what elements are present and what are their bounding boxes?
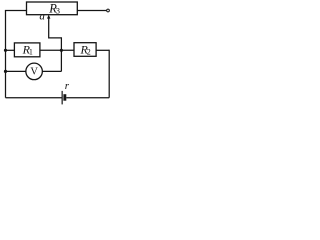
wire bottom left <box>6 97 62 99</box>
wire wiper elbow <box>49 17 62 50</box>
wire bottom right <box>66 97 109 99</box>
junction node left-voltmeter <box>4 70 7 73</box>
wire right rail <box>108 50 110 98</box>
wire voltmeter left <box>6 70 26 72</box>
wire middle right <box>96 49 109 51</box>
battery short plate <box>63 94 66 101</box>
wire left rail <box>5 11 7 98</box>
svg-text:2: 2 <box>87 48 91 57</box>
wire voltmeter right <box>42 70 61 72</box>
resistor R1 <box>14 43 40 57</box>
terminal circle <box>107 9 110 12</box>
junction node wiper-middle <box>60 49 63 52</box>
voltmeter V <box>26 63 43 80</box>
resistor R3 <box>27 2 78 15</box>
wire middle left <box>6 49 15 51</box>
svg-text:1: 1 <box>29 48 33 57</box>
wire top right <box>77 10 106 12</box>
wire junction to voltmeter <box>60 50 62 71</box>
svg-text:V: V <box>30 66 38 77</box>
svg-text:3: 3 <box>56 5 60 15</box>
junction node left-middle <box>4 49 7 52</box>
svg-text:r: r <box>65 80 70 92</box>
wire top left <box>5 10 27 12</box>
wire middle center <box>40 49 74 51</box>
arrowhead wiper a <box>47 15 50 19</box>
svg-text:a: a <box>39 11 45 23</box>
battery long plate <box>61 91 63 105</box>
resistor R2 <box>74 43 96 57</box>
